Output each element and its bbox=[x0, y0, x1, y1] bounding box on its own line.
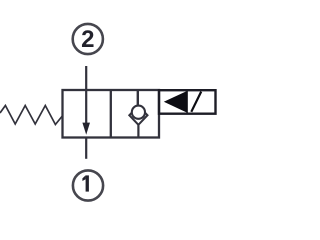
wire valve to port 1 (bottom vertical line) bbox=[85, 137, 87, 159]
envelope divider bbox=[110, 90, 112, 138]
solenoid slash bbox=[191, 92, 201, 112]
port 1 label bbox=[82, 175, 89, 191]
solenoid triangle (filled) bbox=[164, 91, 188, 113]
check valve line upper bbox=[137, 90, 139, 108]
flow path arrow (open position) bbox=[85, 90, 87, 126]
wire port 2 to valve (top vertical line) bbox=[85, 66, 87, 91]
port 2 circle bbox=[73, 24, 103, 54]
solenoid box bbox=[159, 90, 216, 114]
spring (left return spring) bbox=[0, 106, 62, 125]
check valve diamond bbox=[129, 106, 147, 125]
port 1 circle bbox=[73, 170, 103, 200]
valve body (two-position envelope) bbox=[63, 90, 160, 138]
check valve ball circle bbox=[132, 106, 145, 119]
check valve line lower bbox=[137, 124, 139, 138]
svg-text:2: 2 bbox=[81, 26, 94, 53]
